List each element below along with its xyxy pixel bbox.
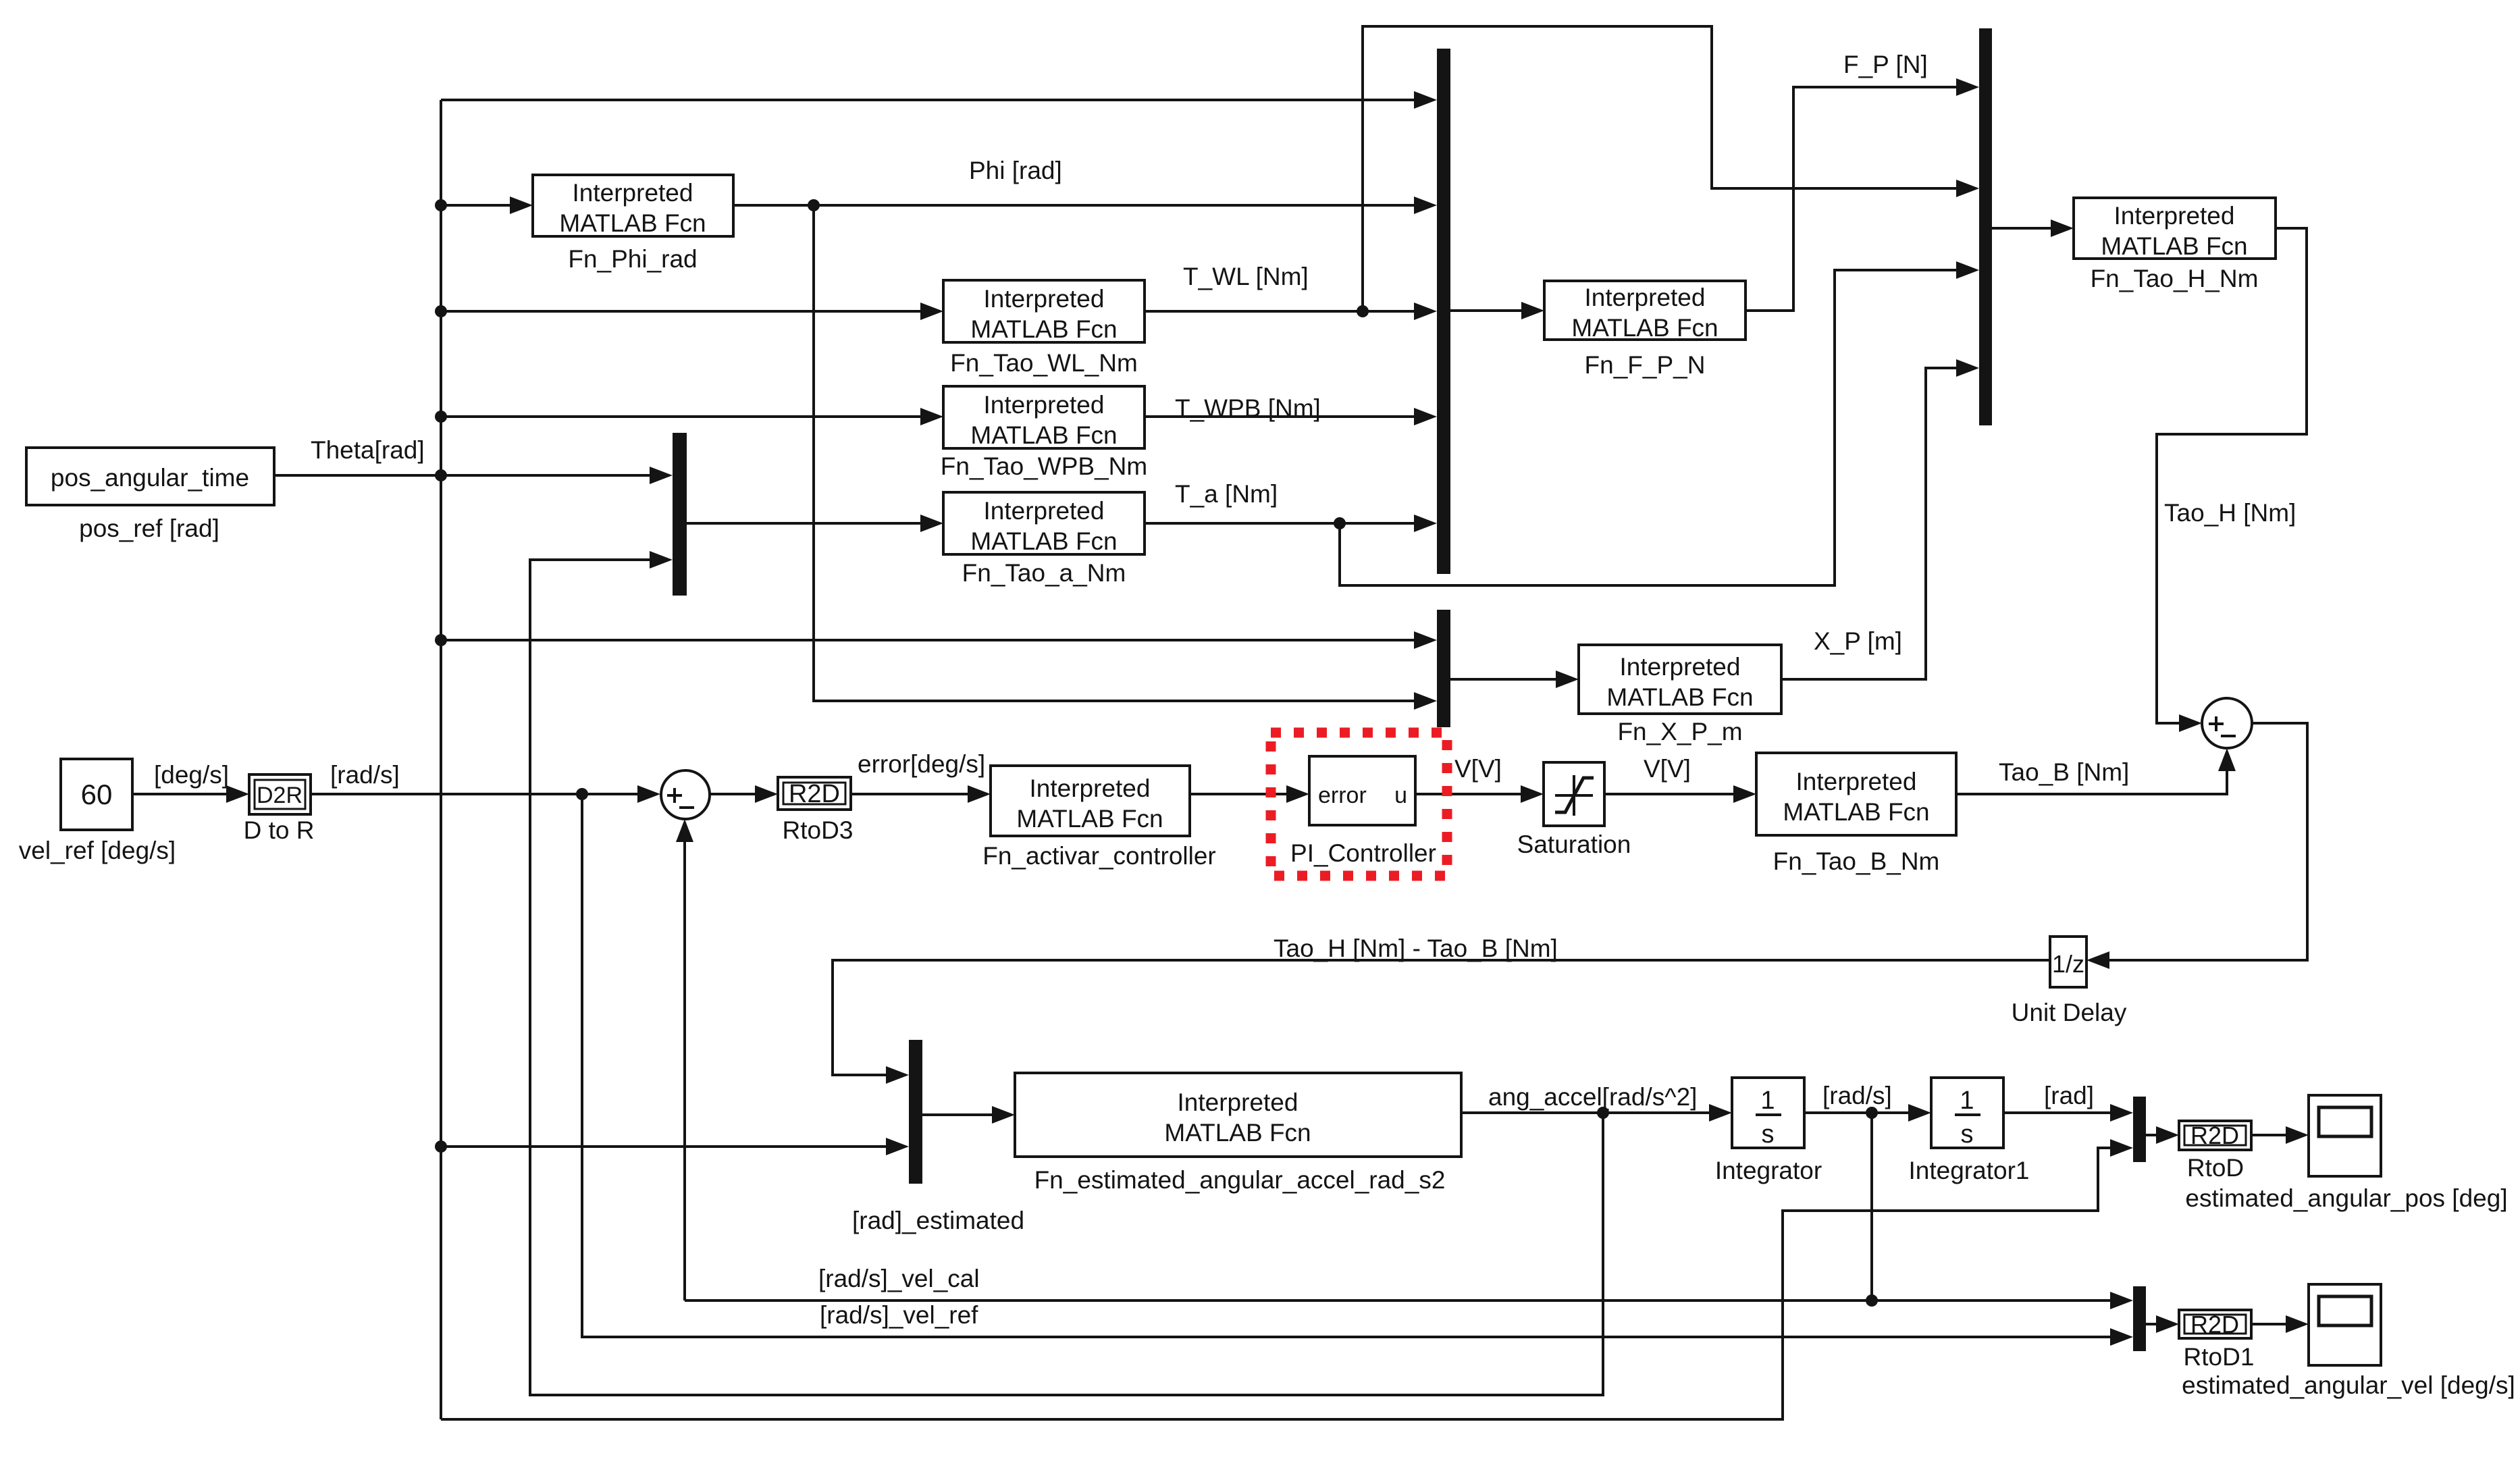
label Fn_X_P_m xyxy=(1617,718,1742,745)
svg-text:estimated_angular_pos [deg]: estimated_angular_pos [deg] xyxy=(2185,1184,2507,1212)
label [rad/s]_vel_cal xyxy=(818,1265,980,1292)
wire mux5 output to Fn_estimated input xyxy=(922,1106,1015,1124)
wire Unit Delay output Tao_H minus Tao_B to mux5 input1 xyxy=(833,960,2050,1084)
svg-text:Interpreted: Interpreted xyxy=(573,179,693,207)
wire PI_Controller V output to Saturation xyxy=(1415,785,1544,803)
svg-text:[deg/s]: [deg/s] xyxy=(154,761,229,789)
block Fn_Tao_WL_Nm xyxy=(943,280,1145,343)
label Tao_H [Nm] xyxy=(2164,499,2296,527)
block PI_Controller xyxy=(1309,756,1415,825)
wire top T_WL branch to mux3 input2 xyxy=(1363,26,1979,311)
wire Theta to mux5 input2 xyxy=(435,1138,909,1155)
svg-text:Tao_H [Nm] - Tao_B [Nm]: Tao_H [Nm] - Tao_B [Nm] xyxy=(1274,935,1558,962)
mux M4 two inputs xyxy=(1437,610,1450,727)
mux M3 four inputs xyxy=(1979,28,1992,425)
label Theta[rad] xyxy=(311,436,425,464)
svg-text:Fn_Tao_WL_Nm: Fn_Tao_WL_Nm xyxy=(950,349,1138,377)
wire mux3 output to Fn_Tao_H input xyxy=(1992,219,2074,237)
scope estimated_angular_vel xyxy=(2309,1284,2381,1365)
block constant 60 xyxy=(61,759,132,830)
wire pos_angular_time Theta output to mux1 input1 xyxy=(274,467,673,484)
block Fn_Tao_a_Nm xyxy=(943,492,1145,555)
block RtoD3 xyxy=(778,777,851,810)
label [rad/s] mid xyxy=(1822,1082,1892,1109)
wire Phi branch to mux4 input2 xyxy=(814,205,1437,710)
svg-text:Interpreted: Interpreted xyxy=(2114,202,2235,230)
label Fn_Tao_WL_Nm xyxy=(950,349,1138,377)
label Fn_F_P_N xyxy=(1585,351,1706,379)
wire sum2 output to Unit Delay xyxy=(2086,723,2307,969)
wire Fn_activar_controller output to PI_Controller xyxy=(1190,785,1309,803)
label X_P [m] xyxy=(1814,627,1902,655)
svg-text:pos_angular_time: pos_angular_time xyxy=(51,464,249,492)
label V[V] after PI xyxy=(1454,755,1502,783)
block pos_angular_time xyxy=(26,448,274,505)
label [rad/s] left xyxy=(330,761,400,789)
svg-text:Theta[rad]: Theta[rad] xyxy=(311,436,425,464)
svg-text:T_a [Nm]: T_a [Nm] xyxy=(1175,480,1278,508)
svg-text:Interpreted: Interpreted xyxy=(984,497,1105,525)
block Fn_activar_controller xyxy=(991,766,1190,836)
mux M1 Theta ang_accel xyxy=(673,433,687,596)
wire Theta distribution vertical xyxy=(440,100,442,1419)
block Integrator xyxy=(1732,1078,1804,1149)
label F_P [N] xyxy=(1843,51,1928,78)
label T_a [Nm] xyxy=(1175,480,1278,508)
svg-text:[rad/s]: [rad/s] xyxy=(1822,1082,1892,1109)
block Fn_Tao_WPB_Nm xyxy=(943,386,1145,449)
label Fn_Tao_a_Nm xyxy=(962,559,1126,587)
block Fn_F_P_N xyxy=(1544,281,1745,342)
svg-text:[rad]_estimated: [rad]_estimated xyxy=(852,1207,1024,1234)
label Fn_Tao_H_Nm xyxy=(2091,265,2259,292)
svg-text:1/z: 1/z xyxy=(2052,950,2084,978)
wire mux2 output to Fn_F_P_N input xyxy=(1450,302,1544,319)
wire T_WPB output to mux2 input4 xyxy=(1145,408,1437,425)
mux M7 two inputs xyxy=(2133,1286,2146,1351)
svg-text:s: s xyxy=(1961,1120,1974,1149)
wire mux7 output to RtoD1 xyxy=(2146,1315,2179,1333)
label Tao_H [Nm] - Tao_B [Nm] xyxy=(1274,935,1558,962)
scope estimated_angular_pos xyxy=(2309,1095,2381,1176)
wire [rad/s] vel_cal feedback junction xyxy=(1866,1113,1878,1307)
svg-text:Fn_estimated_angular_accel_rad: Fn_estimated_angular_accel_rad_s2 xyxy=(1034,1166,1446,1194)
wire Theta top branch to mux2 input1 xyxy=(441,91,1437,109)
svg-text:T_WL [Nm]: T_WL [Nm] xyxy=(1183,263,1309,290)
block Fn_X_P_m xyxy=(1579,645,1781,714)
svg-text:Fn_Tao_B_Nm: Fn_Tao_B_Nm xyxy=(1773,847,1940,875)
svg-text:RtoD3: RtoD3 xyxy=(783,816,854,844)
wire T_a branch to mux3 input3 xyxy=(1340,261,1979,585)
svg-text:MATLAB Fcn: MATLAB Fcn xyxy=(1164,1119,1311,1147)
label RtoD1 xyxy=(2184,1343,2255,1371)
block D2R xyxy=(249,774,311,814)
svg-text:Interpreted: Interpreted xyxy=(1585,284,1706,311)
label error[deg/s] xyxy=(858,750,985,778)
sum2 circle xyxy=(2202,698,2252,748)
label Integrator1 xyxy=(1909,1157,2030,1184)
wire RtoD output to scope estimated_angular_pos xyxy=(2251,1126,2309,1144)
wire vel_cal to sum1 minus input and mux7 input1 xyxy=(676,819,2133,1309)
svg-text:Fn_X_P_m: Fn_X_P_m xyxy=(1617,718,1742,745)
label PI_Controller xyxy=(1290,839,1436,867)
svg-text:[rad/s]_vel_cal: [rad/s]_vel_cal xyxy=(818,1265,980,1292)
svg-text:Fn_F_P_N: Fn_F_P_N xyxy=(1585,351,1706,379)
svg-text:F_P [N]: F_P [N] xyxy=(1843,51,1928,78)
wire Theta bottom branch to mux6 input2 xyxy=(441,1139,2133,1419)
block Fn_Tao_H_Nm xyxy=(2074,198,2276,260)
wire ang_accel feedback to mux1 input2 xyxy=(530,551,1603,1395)
svg-text:[rad/s]: [rad/s] xyxy=(330,761,400,789)
block Fn_Phi_rad xyxy=(533,175,733,237)
wire T_a output to mux2 input5 xyxy=(1145,515,1437,532)
wire RtoD1 output to scope estimated_angular_vel xyxy=(2251,1315,2309,1333)
wire Phi output to mux2 input2 xyxy=(733,196,1437,214)
svg-text:Fn_Tao_H_Nm: Fn_Tao_H_Nm xyxy=(2091,265,2259,292)
svg-text:Tao_B [Nm]: Tao_B [Nm] xyxy=(1999,758,2129,786)
svg-text:estimated_angular_vel [deg/s]: estimated_angular_vel [deg/s] xyxy=(2182,1371,2515,1399)
label T_WL [Nm] xyxy=(1183,263,1309,290)
wire Theta to Fn_Tao_WL input xyxy=(435,303,943,320)
label Tao_B [Nm] xyxy=(1999,758,2129,786)
svg-text:R2D: R2D xyxy=(789,780,840,808)
mux M5 two inputs xyxy=(909,1040,922,1184)
svg-text:Interpreted: Interpreted xyxy=(984,391,1105,419)
block RtoD1 xyxy=(2179,1310,2251,1338)
wire Tao_H output to sum2 xyxy=(2157,228,2307,732)
svg-text:s: s xyxy=(1762,1120,1775,1149)
svg-text:Interpreted: Interpreted xyxy=(984,285,1105,313)
svg-text:MATLAB Fcn: MATLAB Fcn xyxy=(1783,798,1929,826)
svg-text:u: u xyxy=(1394,783,1407,808)
label [deg/s] xyxy=(154,761,229,789)
svg-text:Interpreted: Interpreted xyxy=(1620,653,1741,681)
svg-text:R2D: R2D xyxy=(2190,1122,2239,1149)
label [rad]_estimated xyxy=(852,1207,1024,1234)
label Fn_estimated_angular_accel_rad_s2 xyxy=(1034,1166,1446,1194)
svg-text:MATLAB Fcn: MATLAB Fcn xyxy=(970,527,1117,555)
wire Theta to Fn_Tao_WPB input xyxy=(435,408,943,425)
label Fn_activar_controller xyxy=(982,842,1215,870)
svg-text:Fn_activar_controller: Fn_activar_controller xyxy=(982,842,1215,870)
svg-text:Tao_H [Nm]: Tao_H [Nm] xyxy=(2164,499,2296,527)
svg-text:Saturation: Saturation xyxy=(1517,831,1631,858)
label V[V] after Saturation xyxy=(1644,755,1691,783)
label ang_accel[rad/s^2] xyxy=(1488,1083,1697,1111)
svg-text:vel_ref [deg/s]: vel_ref [deg/s] xyxy=(19,837,176,864)
label estimated_angular_pos [deg] xyxy=(2185,1184,2507,1212)
wire Theta branch to mux4 input1 xyxy=(435,631,1437,649)
wire Integrator [rad/s] to Integrator1 xyxy=(1804,1104,1931,1122)
block RtoD xyxy=(2179,1121,2251,1150)
svg-text:error: error xyxy=(1318,783,1367,808)
label Unit Delay xyxy=(2012,999,2127,1026)
label Fn_Tao_WPB_Nm xyxy=(941,452,1147,480)
svg-text:D2R: D2R xyxy=(257,783,303,808)
label Fn_Phi_rad xyxy=(568,245,697,273)
svg-text:PI_Controller: PI_Controller xyxy=(1290,839,1436,867)
block Saturation xyxy=(1544,762,1604,826)
svg-text:X_P [m]: X_P [m] xyxy=(1814,627,1902,655)
svg-text:R2D: R2D xyxy=(2190,1311,2239,1338)
svg-text:60: 60 xyxy=(81,779,113,810)
svg-text:MATLAB Fcn: MATLAB Fcn xyxy=(1016,805,1163,833)
mux M6 two inputs xyxy=(2133,1097,2146,1162)
label vel_ref [deg/s] xyxy=(19,837,176,864)
wire T_WL output to mux2 input3 xyxy=(1145,303,1437,320)
wire ang_accel to Integrator xyxy=(1461,1104,1732,1122)
label [rad/s]_vel_ref xyxy=(820,1301,978,1329)
label D to R xyxy=(244,816,315,844)
svg-text:D to R: D to R xyxy=(244,816,315,844)
svg-text:Interpreted: Interpreted xyxy=(1030,774,1151,802)
svg-text:[rad/s]_vel_ref: [rad/s]_vel_ref xyxy=(820,1301,978,1329)
mux M2 five inputs xyxy=(1437,49,1450,574)
wire X_P output to mux3 input4 xyxy=(1781,359,1979,679)
wire Saturation V output to Fn_Tao_B xyxy=(1604,785,1756,803)
label RtoD3 xyxy=(783,816,854,844)
block Integrator1 xyxy=(1931,1078,2003,1149)
svg-text:error[deg/s]: error[deg/s] xyxy=(858,750,985,778)
block Fn_estimated_angular_accel_rad_s2 xyxy=(1015,1073,1461,1157)
red dotted highlight around PI_Controller xyxy=(1271,733,1447,876)
label Phi [rad] xyxy=(969,157,1062,184)
label Integrator xyxy=(1715,1157,1822,1184)
block Unit Delay 1/z xyxy=(2050,937,2086,987)
sum1 circle xyxy=(661,770,710,819)
svg-text:Interpreted: Interpreted xyxy=(1178,1088,1298,1116)
svg-text:MATLAB Fcn: MATLAB Fcn xyxy=(1571,314,1718,342)
svg-text:[rad]: [rad] xyxy=(2044,1082,2094,1109)
label Saturation xyxy=(1517,831,1631,858)
wire F_P output to mux3 input1 xyxy=(1745,78,1979,311)
wire vel_ref branch to mux7 input2 xyxy=(582,794,2133,1346)
svg-text:V[V]: V[V] xyxy=(1644,755,1691,783)
svg-text:Phi [rad]: Phi [rad] xyxy=(969,157,1062,184)
wire mux1 output to Fn_Tao_a input xyxy=(687,515,943,532)
svg-text:pos_ref [rad]: pos_ref [rad] xyxy=(79,515,219,542)
svg-text:MATLAB Fcn: MATLAB Fcn xyxy=(2101,232,2247,260)
svg-text:Unit Delay: Unit Delay xyxy=(2012,999,2127,1026)
wire sum1 output to RtoD3 xyxy=(710,785,778,803)
label Fn_Tao_B_Nm xyxy=(1773,847,1940,875)
svg-text:RtoD1: RtoD1 xyxy=(2184,1343,2255,1371)
wire vel_ref 60 to D2R xyxy=(132,785,249,803)
wire mux4 output to Fn_X_P_m input xyxy=(1450,671,1579,688)
svg-text:Integrator: Integrator xyxy=(1715,1157,1822,1184)
svg-text:ang_accel[rad/s^2]: ang_accel[rad/s^2] xyxy=(1488,1083,1697,1111)
svg-text:1: 1 xyxy=(1960,1086,1974,1115)
svg-text:V[V]: V[V] xyxy=(1454,755,1502,783)
label pos_ref [rad] xyxy=(79,515,219,542)
svg-text:Interpreted: Interpreted xyxy=(1796,768,1917,795)
svg-text:1: 1 xyxy=(1760,1086,1775,1115)
svg-text:Fn_Tao_WPB_Nm: Fn_Tao_WPB_Nm xyxy=(941,452,1147,480)
svg-text:MATLAB Fcn: MATLAB Fcn xyxy=(559,209,706,237)
label [rad] xyxy=(2044,1082,2094,1109)
wire D2R [rad/s] to sum1 xyxy=(311,785,660,803)
wire Tao_B output to sum2 minus input xyxy=(1956,748,2236,794)
label RtoD xyxy=(2187,1154,2244,1182)
label T_WPB [Nm] xyxy=(1175,394,1321,422)
svg-text:T_WPB [Nm]: T_WPB [Nm] xyxy=(1175,394,1321,422)
label estimated_angular_vel [deg/s] xyxy=(2182,1371,2515,1399)
svg-text:Integrator1: Integrator1 xyxy=(1909,1157,2030,1184)
wire mux6 output to RtoD xyxy=(2146,1126,2179,1144)
svg-text:MATLAB Fcn: MATLAB Fcn xyxy=(970,421,1117,449)
svg-text:Fn_Phi_rad: Fn_Phi_rad xyxy=(568,245,697,273)
wire RtoD3 error output to Fn_activar_controller xyxy=(851,785,991,803)
wire Integrator1 [rad] to mux6 input1 xyxy=(2003,1104,2133,1122)
svg-text:Fn_Tao_a_Nm: Fn_Tao_a_Nm xyxy=(962,559,1126,587)
svg-text:MATLAB Fcn: MATLAB Fcn xyxy=(970,315,1117,343)
block Fn_Tao_B_Nm xyxy=(1756,753,1956,835)
wire Theta to Fn_Phi_rad input xyxy=(435,196,533,214)
svg-text:MATLAB Fcn: MATLAB Fcn xyxy=(1606,683,1753,711)
svg-text:RtoD: RtoD xyxy=(2187,1154,2244,1182)
